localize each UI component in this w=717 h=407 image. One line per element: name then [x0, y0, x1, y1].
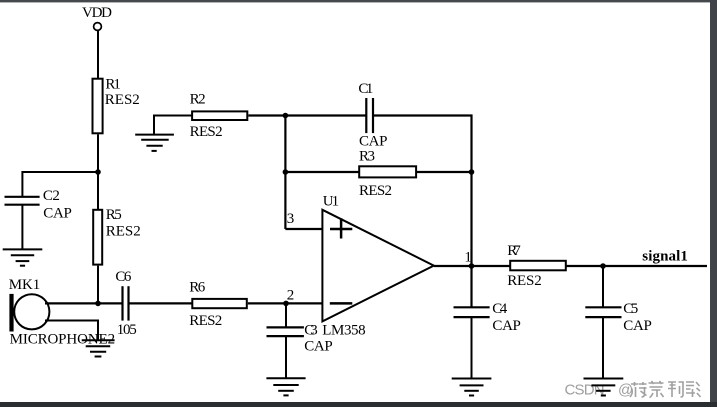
wire C3 to ground: [285, 336, 287, 378]
ground under microphone: [82, 340, 115, 356]
svg-text:R2: R2: [190, 91, 206, 107]
resistor R6: [189, 279, 247, 329]
ground under C3: [266, 378, 305, 395]
svg-text:signal1: signal1: [642, 248, 688, 264]
capacitor C2: [5, 188, 72, 221]
wire R2 right to C1: [248, 114, 365, 116]
wire R2 left to ground stem: [154, 116, 191, 135]
node junction R3 left: [283, 169, 289, 175]
node junction pin2/C3: [283, 301, 289, 307]
node junction R3 right: [469, 169, 475, 175]
wire mic top to node: [45, 302, 98, 304]
svg-text:R1: R1: [105, 76, 121, 92]
svg-text:RES2: RES2: [359, 183, 392, 199]
svg-text:VDD: VDD: [82, 5, 112, 21]
ground under C4: [452, 379, 492, 396]
svg-text:MK1: MK1: [9, 277, 41, 293]
svg-text:1: 1: [464, 249, 472, 265]
capacitor C3: [267, 323, 333, 355]
resistor R1: [93, 76, 140, 133]
resistor R7: [507, 243, 566, 289]
svg-text:CAP: CAP: [359, 134, 388, 150]
svg-text:CAP: CAP: [43, 206, 72, 222]
svg-text:RES2: RES2: [105, 92, 140, 108]
wire C5 branch: [602, 266, 604, 307]
wire node to C6: [98, 302, 122, 304]
wire C1 right to corner: [374, 116, 472, 308]
wire C2 to ground: [21, 205, 23, 250]
microphone MK1: [9, 277, 115, 348]
resistor R2: [190, 91, 248, 140]
svg-text:RES2: RES2: [189, 313, 222, 329]
svg-text:RES2: RES2: [190, 124, 223, 140]
wire R1 to R5: [97, 134, 99, 210]
wire C3 stem top: [285, 303, 287, 327]
capacitor C6: [115, 269, 136, 338]
svg-text:CAP: CAP: [304, 338, 333, 354]
wire op-amp output: [434, 265, 510, 267]
wire C5 to ground: [602, 317, 604, 378]
capacitor C4: [454, 301, 521, 334]
svg-text:C4: C4: [492, 301, 508, 317]
wire C6 to R6: [130, 302, 193, 304]
wire R7 to signal1: [566, 265, 707, 267]
wire R3 left: [285, 171, 359, 173]
ground under C5: [584, 379, 624, 396]
svg-text:LM358: LM358: [322, 323, 365, 339]
watermark CSDN: [565, 382, 634, 399]
svg-text:105: 105: [117, 322, 137, 338]
frame right strip: [710, 0, 717, 407]
node junction pin1: [469, 263, 475, 269]
ground at R2 left: [135, 135, 174, 151]
wire branch to C2: [22, 172, 98, 197]
svg-text:C2: C2: [43, 188, 60, 204]
wire VDD stem: [97, 30, 99, 79]
frame top strip: [0, 0, 717, 2]
svg-text:R7: R7: [507, 243, 521, 259]
svg-text:R5: R5: [106, 207, 122, 223]
wire R6 to op-amp pin 2: [248, 302, 323, 304]
node junction mic/R5/C6: [95, 301, 101, 307]
svg-text:C5: C5: [623, 301, 638, 317]
svg-text:CAP: CAP: [492, 318, 521, 334]
svg-text:RES2: RES2: [507, 273, 542, 289]
frame bottom strip: [0, 402, 717, 407]
svg-text:2: 2: [287, 287, 295, 303]
resistor R3: [359, 149, 416, 199]
node junction C5 branch: [600, 263, 606, 269]
capacitor C5: [585, 301, 652, 334]
ground under C2: [3, 249, 43, 265]
svg-text:R3: R3: [359, 149, 375, 165]
svg-text:C1: C1: [358, 81, 373, 97]
capacitor C1: [358, 81, 387, 150]
svg-text:RES2: RES2: [106, 224, 141, 240]
svg-text:U1: U1: [323, 194, 339, 210]
op-amp U1: [322, 194, 434, 339]
wire R5 to mic node: [97, 266, 99, 304]
node junction R1/R5/C2: [95, 169, 101, 175]
resistor R5: [93, 207, 141, 265]
node junction R2/feedback: [283, 113, 289, 119]
svg-text:CAP: CAP: [623, 318, 652, 334]
wire R3 right: [416, 171, 471, 173]
power VDD terminal: [82, 5, 112, 30]
svg-text:C6: C6: [115, 269, 131, 285]
svg-text:3: 3: [287, 211, 295, 227]
wire mic bottom to ground: [45, 321, 98, 341]
wire C4 to ground: [471, 317, 473, 378]
wire pin 3: [285, 228, 322, 230]
watermark CJK glyphs: [630, 381, 701, 398]
svg-text:R6: R6: [189, 279, 206, 295]
svg-text:C3: C3: [304, 323, 318, 339]
wire vertical feedback left: [284, 116, 286, 230]
